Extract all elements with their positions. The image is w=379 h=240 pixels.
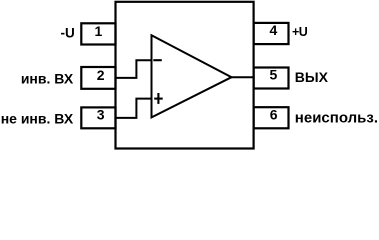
pin 4 box [254,23,289,44]
plus sign (non-inverting input) [154,98,163,100]
svg-text:2: 2 [97,67,105,83]
pin 5 box [254,68,289,89]
svg-text:3: 3 [97,107,105,123]
pin 1 box [81,23,115,44]
output wire to pin 5 [232,76,254,78]
pin 6 box [254,107,289,128]
svg-text:-U: -U [61,26,75,41]
pin 2 box [81,67,115,89]
svg-text:инв. ВХ: инв. ВХ [21,70,74,86]
IC body U1 [116,2,254,149]
svg-text:ВЫХ: ВЫХ [295,69,329,85]
pin 3 box [81,107,115,128]
svg-text:6: 6 [270,106,278,122]
minus sign (inverting input) [153,59,162,61]
wire pin3 to non-inverting input [116,99,152,118]
op-amp triangle [152,35,232,117]
svg-text:+U: +U [292,25,308,39]
svg-text:5: 5 [270,67,278,83]
svg-text:4: 4 [270,22,278,38]
svg-text:не инв. ВХ: не инв. ВХ [1,111,74,127]
svg-text:неиспольз.: неиспольз. [295,110,378,127]
wire pin2 to inverting input [116,60,152,78]
svg-text:1: 1 [95,23,103,39]
